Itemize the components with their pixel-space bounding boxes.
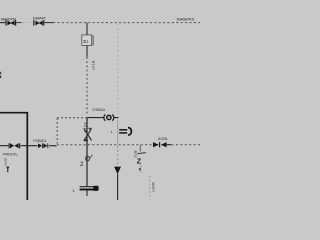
wire main branch lower <box>86 118 88 187</box>
svg-text:≠FR107L.: ≠FR107L. <box>3 152 19 156</box>
zener ZD2 <box>137 153 146 166</box>
wire bottom net solid <box>0 145 9 147</box>
svg-text:FXD4C1: FXD4C1 <box>33 139 46 143</box>
module box outline <box>0 113 27 200</box>
wire D3 to D4 <box>20 145 37 147</box>
wire D2 to junction <box>45 22 53 24</box>
wire below D6 <box>117 174 119 200</box>
diode D6 down <box>114 167 121 175</box>
diode D3 <box>9 143 21 148</box>
svg-text:R10?: R10? <box>91 61 95 70</box>
wire below C2 <box>86 190 88 196</box>
wire bottom net dashed right <box>172 144 201 146</box>
svg-text:1N4A4T: 1N4A4T <box>33 16 47 21</box>
wire below ZD2 <box>140 163 142 173</box>
svg-text:1N4GMT01: 1N4GMT01 <box>176 16 195 21</box>
diode D1 <box>5 20 16 25</box>
wire to lamp <box>87 117 103 119</box>
wire lower right dashed <box>149 176 151 199</box>
wire zener branch stub <box>139 145 141 151</box>
diode D4 <box>38 143 48 148</box>
wire top bus left stub <box>0 22 5 24</box>
wire D4 to dashed <box>49 145 56 147</box>
fuse FU1 <box>82 35 93 46</box>
svg-text:1N5?: 1N5? <box>151 182 155 192</box>
wire fuse branch upper <box>86 23 88 35</box>
svg-text:1.: 1. <box>72 189 75 193</box>
svg-text:2C10: 2C10 <box>83 122 87 132</box>
wire vertical net dashed mid <box>117 146 119 165</box>
wire vertical net dashed upper <box>117 24 119 113</box>
svg-text:B4HD7M: B4HD7M <box>1 16 15 21</box>
wire vertical net light solid <box>117 120 119 144</box>
lamp NE1 <box>104 114 119 120</box>
optocoupler dashed box top <box>57 117 86 119</box>
node tick <box>139 168 141 170</box>
diode D5 pair <box>153 142 171 147</box>
triac U1 <box>84 128 92 142</box>
svg-text:t.: t. <box>111 130 113 134</box>
wire bottom net dashed <box>57 144 153 146</box>
svg-text:A?201: A?201 <box>158 137 168 141</box>
wire below fuse <box>86 46 88 57</box>
label left edge clipped <box>0 72 1 74</box>
svg-text:3U.: 3U. <box>83 39 89 44</box>
optocoupler dashed box left <box>56 118 58 144</box>
svg-text:R??: R?? <box>3 159 7 166</box>
svg-text:2: 2 <box>80 161 84 168</box>
svg-text:1?S401I: 1?S401I <box>92 108 105 112</box>
diode D2 <box>33 20 44 25</box>
capacitor C1 <box>119 128 131 136</box>
wire between D1 and D2 <box>16 22 21 24</box>
polarity arrow in box <box>6 167 9 173</box>
wire top bus dashed <box>53 22 200 24</box>
wire fuse branch dashed <box>86 57 88 114</box>
capacitor C2 <box>80 186 99 191</box>
svg-text:R?2: R?2 <box>133 151 137 158</box>
zener ZD1 <box>80 155 92 168</box>
